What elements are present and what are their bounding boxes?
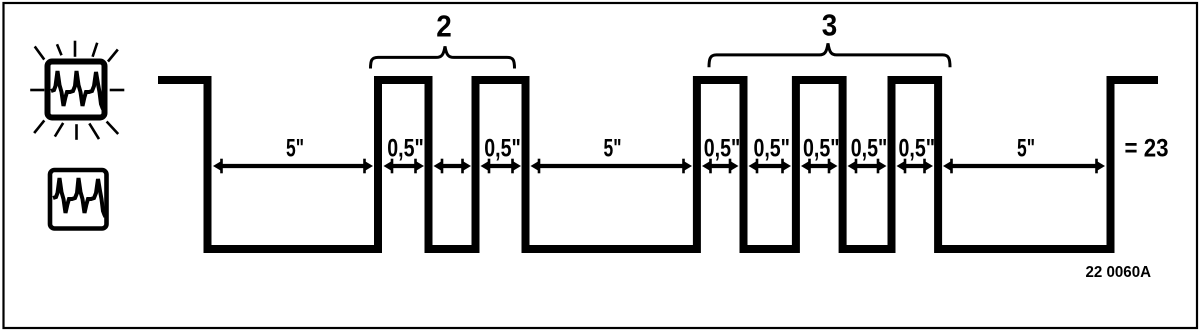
dimension arrow 0.5s gap A-B: [749, 159, 792, 174]
svg-text:5": 5": [286, 135, 304, 163]
brace over group of 3 pulses: [709, 43, 950, 67]
dimension arrow 0.5s pulseB: [801, 159, 838, 174]
dimension arrow 5s pause #2: [531, 159, 693, 174]
dimension arrow 0.5s pulse2: [481, 159, 522, 174]
dimension arrow 0.5s gap B-C: [848, 159, 887, 174]
svg-text:= 23: = 23: [1125, 135, 1169, 163]
dimension arrow 0.5s gap (unlabeled): [434, 159, 472, 174]
dimension arrow 5s pause #3: [943, 159, 1105, 174]
svg-text:0,5": 0,5": [387, 135, 424, 163]
dimension arrow 0.5s pulseC: [897, 159, 934, 174]
svg-text:0,5": 0,5": [899, 135, 936, 163]
dimension arrow 0.5s pulseA: [702, 159, 739, 174]
lamp icon L2 (steady warning lamp): [50, 170, 107, 229]
svg-text:0,5": 0,5": [484, 135, 521, 163]
lamp icon L1 (flashing warning lamp): [32, 42, 124, 139]
wire: flash-code output signal waveform: [158, 80, 1158, 249]
svg-text:2: 2: [436, 9, 452, 44]
svg-text:0,5": 0,5": [851, 135, 888, 163]
svg-text:0,5": 0,5": [803, 135, 840, 163]
brace over group of 2 pulses: [371, 46, 515, 68]
svg-text:3: 3: [822, 8, 838, 43]
dimension arrow 5s pause #1: [213, 159, 373, 174]
dimension arrow 0.5s pulse1: [384, 159, 425, 174]
svg-text:5": 5": [1017, 135, 1035, 163]
svg-text:0,5": 0,5": [704, 135, 741, 163]
svg-text:5": 5": [604, 135, 622, 163]
svg-text:22 0060A: 22 0060A: [1086, 264, 1152, 281]
svg-text:0,5": 0,5": [753, 135, 790, 163]
